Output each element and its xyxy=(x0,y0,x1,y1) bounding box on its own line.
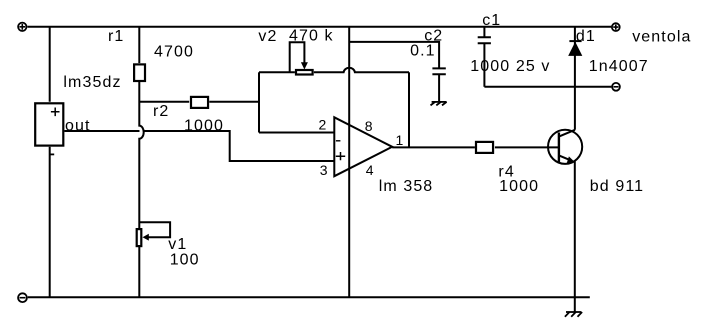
svg-text:1000: 1000 xyxy=(499,178,539,195)
svg-text:v2: v2 xyxy=(258,28,277,45)
wire lm35 top drop xyxy=(49,27,51,102)
svg-text:3: 3 xyxy=(320,162,328,178)
diode D1 xyxy=(568,41,582,56)
svg-text:d1: d1 xyxy=(576,28,596,45)
svg-text:1000 25 v: 1000 25 v xyxy=(470,58,550,75)
wire feedback vertical xyxy=(408,72,410,147)
op-amp U1 lm358 xyxy=(334,117,392,176)
wire v1 wiper loop xyxy=(139,222,170,237)
wire lm35 out xyxy=(64,131,334,161)
capacitor C1 xyxy=(478,27,491,87)
wire r2 left xyxy=(139,101,189,103)
terminal supply + xyxy=(18,23,26,31)
wire r1 down with hop over out xyxy=(139,81,143,229)
wire v2 left xyxy=(259,71,295,73)
wire emitter vertical xyxy=(574,162,576,313)
wire inverting node vertical xyxy=(258,72,260,132)
svg-text:ventola: ventola xyxy=(632,28,691,45)
v2 wiper arrow xyxy=(301,62,308,69)
svg-text:r1: r1 xyxy=(108,28,124,45)
svg-text:lm35dz: lm35dz xyxy=(63,74,121,91)
svg-text:1n4007: 1n4007 xyxy=(589,58,649,75)
op-amp plus input mark xyxy=(336,152,345,160)
op-amp minus input mark xyxy=(336,140,341,142)
wire r1 top drop xyxy=(138,27,140,63)
svg-text:bd 911: bd 911 xyxy=(590,178,644,195)
resistor R4 xyxy=(476,142,493,153)
wire bottom rail xyxy=(28,296,590,298)
svg-text:r2: r2 xyxy=(153,103,169,120)
wire collector vertical xyxy=(574,27,576,130)
resistor R1 xyxy=(134,64,145,81)
svg-text:2: 2 xyxy=(319,117,327,133)
terminal supply - xyxy=(18,293,27,302)
wire v1 to bottom rail xyxy=(138,246,140,297)
svg-text:4700: 4700 xyxy=(154,44,194,61)
wire v2 right with hop xyxy=(314,68,409,73)
wire c1 bottom to minus terminal xyxy=(484,86,611,88)
wire lm35 gnd xyxy=(49,147,51,297)
ground emitter xyxy=(565,312,582,317)
v1 wiper arrow xyxy=(143,234,149,241)
wire base xyxy=(495,146,559,148)
svg-text:c1: c1 xyxy=(482,12,501,29)
potentiometer V2 xyxy=(296,70,313,75)
wire top rail xyxy=(28,26,612,28)
svg-text:8: 8 xyxy=(365,118,373,134)
sensor lm35dz xyxy=(35,103,63,145)
lm35 minus mark xyxy=(50,153,54,155)
ground c2 xyxy=(431,102,447,106)
terminal ventola + xyxy=(612,23,620,31)
wire output xyxy=(392,146,475,148)
wire c2 branch xyxy=(349,42,439,68)
svg-text:470 k: 470 k xyxy=(289,27,334,44)
transistor Q1 bd911 xyxy=(548,130,582,164)
resistor R2 xyxy=(191,97,208,108)
svg-text:1000: 1000 xyxy=(184,117,224,134)
wire v2 wiper loop xyxy=(290,42,305,72)
potentiometer V1 xyxy=(137,229,142,246)
svg-text:0.1: 0.1 xyxy=(410,43,436,60)
svg-text:100: 100 xyxy=(170,252,200,269)
wire pin2 xyxy=(259,132,334,134)
svg-text:lm 358: lm 358 xyxy=(379,178,434,195)
svg-text:out: out xyxy=(65,118,91,135)
wire r2 right xyxy=(209,101,259,103)
svg-text:1: 1 xyxy=(396,132,404,148)
svg-text:v1: v1 xyxy=(168,236,187,253)
svg-text:4: 4 xyxy=(366,162,374,178)
wire op-amp supply vertical xyxy=(348,27,350,298)
terminal ventola - xyxy=(612,83,620,91)
capacitor C2 xyxy=(432,68,445,102)
